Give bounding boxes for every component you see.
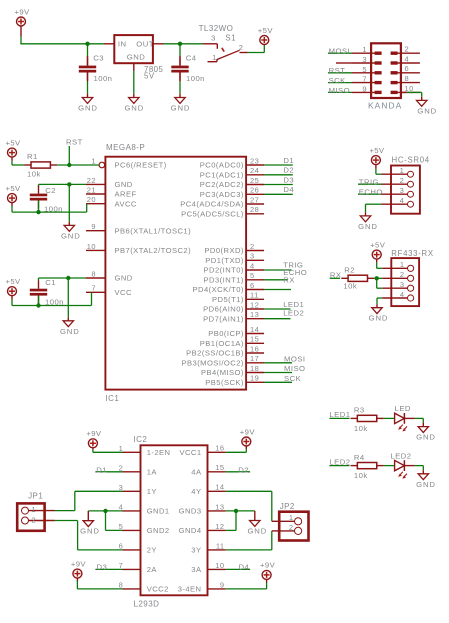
net SCK to KANDA pin7	[328, 82, 352, 84]
net D3 at IC1	[264, 184, 293, 186]
svg-text:AVCC: AVCC	[115, 199, 137, 208]
svg-text:R4: R4	[354, 453, 365, 462]
IC1 right pins	[180, 156, 264, 387]
wire C1 top	[38, 278, 40, 281]
svg-text:RST: RST	[329, 66, 346, 75]
svg-text:15: 15	[215, 463, 224, 472]
svg-text:+9V: +9V	[71, 559, 87, 568]
wire C1 bottom	[38, 296, 40, 306]
svg-text:12: 12	[250, 300, 259, 309]
svg-text:10k: 10k	[354, 471, 368, 480]
wire C3 to GND	[87, 73, 89, 82]
wire +9V to regulator IN	[20, 26, 22, 37]
net D4 to IC2 pin10	[226, 568, 250, 570]
net D1 at IC1	[264, 164, 293, 166]
svg-text:22: 22	[87, 176, 96, 185]
wire +9V to IC2 pin1	[92, 448, 94, 450]
IC2 left pins 1-8	[119, 444, 171, 594]
LED LED2	[390, 451, 411, 478]
KANDA right pins 2 4 6 8 10	[396, 45, 420, 93]
supply +9V P+8	[86, 429, 102, 448]
svg-text:D4: D4	[283, 185, 294, 194]
svg-text:2: 2	[32, 515, 37, 524]
svg-text:100n: 100n	[94, 74, 113, 83]
svg-text:PD4(XCK/T0): PD4(XCK/T0)	[193, 285, 244, 294]
svg-text:GND: GND	[416, 433, 436, 442]
svg-text:LED2: LED2	[329, 457, 350, 466]
capacitor C1	[30, 278, 64, 307]
svg-text:JP2: JP2	[280, 502, 295, 511]
svg-text:GND3: GND3	[179, 507, 202, 516]
wire to RF433 pin3	[376, 278, 378, 288]
svg-text:7: 7	[91, 284, 96, 293]
voltage regulator 7805	[114, 35, 163, 80]
svg-text:3-4EN: 3-4EN	[178, 585, 202, 594]
net LED1 at IC1	[264, 308, 291, 310]
svg-text:GND: GND	[127, 53, 145, 62]
svg-text:PD1(TXD): PD1(TXD)	[205, 256, 244, 265]
svg-text:PD5(T1): PD5(T1)	[212, 295, 244, 304]
svg-text:ECHO: ECHO	[359, 188, 383, 197]
svg-text:SCK: SCK	[284, 374, 302, 383]
svg-text:L293D: L293D	[134, 600, 160, 609]
svg-text:+5V: +5V	[370, 240, 386, 249]
ground GND HC-SR04	[358, 216, 378, 231]
ground GND near C2	[61, 225, 81, 240]
svg-text:KANDA: KANDA	[368, 101, 402, 111]
svg-text:PC1(ADC1): PC1(ADC1)	[200, 171, 244, 180]
connector HC-SR04	[391, 156, 430, 214]
svg-text:GND: GND	[358, 222, 378, 231]
svg-text:4: 4	[250, 261, 255, 270]
svg-text:16: 16	[215, 444, 224, 453]
svg-text:2: 2	[400, 176, 405, 185]
svg-text:5V: 5V	[144, 71, 155, 80]
svg-text:PD7(AIN1): PD7(AIN1)	[203, 314, 244, 323]
svg-text:2: 2	[405, 45, 410, 54]
net MOSI at IC1	[264, 362, 292, 364]
svg-text:1: 1	[400, 166, 405, 175]
connector JP2	[279, 502, 308, 540]
supply +9V P+11	[260, 561, 276, 580]
svg-text:D2: D2	[238, 465, 249, 474]
svg-text:13: 13	[215, 502, 224, 511]
wire RST vertical	[68, 146, 70, 165]
svg-text:2: 2	[239, 43, 244, 52]
svg-text:PB4(MISO): PB4(MISO)	[201, 368, 244, 377]
svg-text:3: 3	[400, 280, 405, 289]
svg-text:D4: D4	[239, 563, 250, 572]
svg-text:GND2: GND2	[147, 526, 170, 535]
microcontroller IC1 MEGA8-P	[105, 143, 246, 403]
svg-text:21: 21	[87, 185, 96, 194]
svg-text:R2: R2	[344, 265, 355, 274]
svg-text:PC3(ADC3): PC3(ADC3)	[200, 190, 244, 199]
wire 7805 GND pin	[133, 63, 135, 71]
svg-text:1: 1	[212, 53, 217, 62]
svg-text:RX: RX	[283, 275, 295, 284]
wire R3 to LED	[384, 417, 395, 419]
svg-text:8: 8	[91, 269, 96, 278]
resistor R4	[351, 453, 384, 480]
svg-text:PC5(ADC5/SCL): PC5(ADC5/SCL)	[181, 210, 244, 219]
svg-text:16: 16	[250, 344, 259, 353]
net SCK at IC1	[264, 381, 292, 383]
ground GND KANDA	[417, 100, 438, 115]
svg-text:GND: GND	[115, 180, 133, 189]
svg-text:LED2: LED2	[390, 451, 411, 460]
svg-text:5: 5	[362, 65, 367, 74]
svg-text:R1: R1	[27, 152, 38, 161]
ground GND JP2 side	[247, 521, 267, 536]
svg-text:GND: GND	[369, 314, 389, 323]
svg-text:VCC1: VCC1	[179, 448, 201, 457]
capacitor C2	[30, 186, 63, 214]
svg-text:11: 11	[216, 541, 225, 550]
svg-text:IC1: IC1	[106, 394, 120, 403]
wire IC2 2Y to JP1 pin2	[55, 520, 78, 522]
svg-text:1: 1	[400, 260, 405, 269]
svg-text:28: 28	[250, 205, 259, 214]
LED LED	[395, 404, 411, 431]
ground GND LED1	[416, 427, 436, 442]
svg-text:VCC2: VCC2	[147, 585, 169, 594]
wire C4 to GND	[179, 73, 181, 82]
wire +5V to AVCC	[11, 203, 13, 207]
wire C2 top	[38, 184, 40, 187]
wire +5V to VCC	[11, 296, 13, 300]
svg-text:14: 14	[215, 483, 224, 492]
ground GND RF433	[369, 308, 389, 323]
wire IC2 GND1 GND2 to GND	[106, 510, 123, 512]
wire KANDA pin10 to GND	[401, 91, 407, 93]
supply +9V P+10	[71, 559, 87, 578]
svg-text:PD0(RXD): PD0(RXD)	[204, 246, 243, 255]
svg-text:MOSI: MOSI	[329, 47, 350, 56]
svg-text:9: 9	[220, 580, 225, 589]
svg-text:14: 14	[250, 325, 259, 334]
svg-text:+9V: +9V	[260, 561, 276, 570]
capacitor C3	[79, 54, 113, 83]
net LED2 to R4	[329, 465, 349, 467]
svg-text:10k: 10k	[343, 281, 357, 290]
svg-text:LED: LED	[395, 404, 411, 413]
svg-text:GND: GND	[171, 104, 191, 113]
junction C2 +5V	[36, 210, 40, 214]
svg-text:15: 15	[250, 335, 259, 344]
svg-text:TRIG: TRIG	[359, 178, 379, 187]
svg-text:+5V: +5V	[5, 138, 21, 147]
junction R2 pins 2-3	[375, 276, 379, 280]
svg-text:GND: GND	[124, 104, 144, 113]
svg-text:PB3(MOSI/OC2): PB3(MOSI/OC2)	[181, 359, 243, 368]
svg-text:+5V: +5V	[5, 277, 21, 286]
svg-text:10: 10	[215, 561, 224, 570]
RF433-RX pins	[382, 260, 413, 301]
svg-text:+9V: +9V	[14, 7, 30, 16]
capacitor C4	[171, 54, 205, 83]
svg-text:OUT: OUT	[136, 40, 154, 49]
net ECHO to HC-SR04 pin3	[358, 193, 382, 195]
net D2 to IC2 pin15	[226, 471, 250, 473]
net RX to R2	[330, 277, 340, 279]
ground GND JP1 side	[80, 521, 100, 536]
svg-text:GND: GND	[115, 274, 133, 283]
svg-text:19: 19	[250, 374, 259, 383]
svg-text:1: 1	[32, 505, 37, 514]
svg-text:VCC: VCC	[115, 288, 132, 297]
svg-text:27: 27	[250, 195, 259, 204]
net LED1 to R3	[329, 417, 349, 419]
net D2 at IC1	[264, 174, 293, 176]
svg-text:4: 4	[405, 54, 410, 63]
supply +5V P+3	[5, 138, 21, 157]
KANDA left pins 1 3 5 7 9	[336, 45, 376, 93]
svg-text:3A: 3A	[191, 565, 202, 574]
svg-text:MISO: MISO	[329, 86, 350, 95]
svg-text:PC0(ADC0): PC0(ADC0)	[200, 161, 244, 170]
net D4 at IC1	[264, 193, 293, 195]
connector JP1	[17, 492, 54, 531]
connector SV1 KANDA	[368, 43, 402, 110]
svg-text:RF433-RX: RF433-RX	[391, 249, 434, 258]
svg-text:23: 23	[250, 156, 259, 165]
wire R1 to IC1 pin1	[57, 164, 99, 166]
wire R4 to LED2	[384, 465, 395, 467]
svg-text:PB7(XTAL2/TOSC2): PB7(XTAL2/TOSC2)	[115, 246, 192, 255]
svg-text:25: 25	[250, 176, 259, 185]
svg-text:+5V: +5V	[258, 26, 274, 35]
net TRIG at IC1	[264, 269, 292, 271]
svg-text:SCK: SCK	[329, 76, 347, 85]
svg-text:PB5(SCK): PB5(SCK)	[205, 378, 244, 387]
svg-text:C1: C1	[45, 278, 56, 287]
net MISO to KANDA pin9	[328, 91, 352, 93]
svg-text:LED2: LED2	[283, 308, 304, 317]
svg-text:+9V: +9V	[86, 429, 102, 438]
net TRIG to HC-SR04 pin2	[358, 183, 382, 185]
wire C2 bottom to +5V net	[38, 201, 40, 213]
svg-text:GND: GND	[78, 104, 98, 113]
net RST to KANDA pin5	[328, 72, 352, 74]
svg-text:2Y: 2Y	[147, 546, 157, 555]
junction GND C1	[66, 276, 70, 280]
wire IC2 4Y to JP2 pin1	[226, 490, 272, 492]
svg-text:2: 2	[289, 523, 294, 532]
wire LED to GND	[404, 417, 414, 419]
svg-text:3: 3	[362, 55, 367, 64]
svg-text:4A: 4A	[191, 468, 202, 477]
svg-text:C2: C2	[45, 186, 56, 195]
wire +5V to R1	[11, 157, 13, 161]
HC-SR04 pins	[382, 166, 414, 207]
svg-text:IC2: IC2	[134, 435, 148, 444]
svg-text:1: 1	[289, 513, 294, 522]
wire C4 branch	[179, 44, 181, 57]
svg-text:D2: D2	[283, 166, 294, 175]
svg-text:D1: D1	[283, 156, 294, 165]
net ECHO at IC1	[264, 279, 288, 281]
IC1 left pins	[86, 156, 191, 297]
svg-text:26: 26	[250, 186, 259, 195]
svg-text:GND1: GND1	[147, 507, 170, 516]
resistor R3	[351, 406, 384, 433]
svg-text:9: 9	[362, 84, 367, 93]
svg-text:GND: GND	[247, 527, 267, 536]
svg-text:C4: C4	[186, 54, 197, 63]
svg-text:18: 18	[250, 364, 259, 373]
svg-text:RST: RST	[66, 137, 83, 146]
wire IC2 GND3 GND4 to GND	[226, 510, 255, 512]
svg-text:10: 10	[405, 84, 414, 93]
wire GND vertical to GND symbol	[68, 184, 70, 221]
ground GND near C1	[60, 321, 80, 336]
svg-text:+5V: +5V	[5, 184, 21, 193]
resistor R1	[24, 152, 57, 178]
svg-text:1Y: 1Y	[147, 487, 157, 496]
svg-text:+5V: +5V	[369, 146, 385, 155]
ground GND LED2	[416, 474, 436, 489]
supply +5V P+4	[5, 184, 21, 203]
svg-text:PD2(INT0): PD2(INT0)	[204, 266, 244, 275]
motor driver IC2 L293D	[134, 435, 208, 609]
svg-text:JP1: JP1	[28, 492, 43, 501]
wire IC2 1Y to JP1 pin1	[75, 490, 123, 492]
net D1 to IC2 pin2	[95, 471, 122, 473]
wire IC1 GND pin22 to C2	[39, 183, 87, 185]
resistor R2	[341, 265, 374, 290]
svg-text:1A: 1A	[147, 468, 158, 477]
svg-text:4: 4	[400, 196, 405, 205]
svg-text:2: 2	[400, 270, 405, 279]
svg-text:2A: 2A	[147, 565, 158, 574]
svg-text:100n: 100n	[186, 74, 205, 83]
svg-text:1: 1	[91, 156, 96, 165]
net MISO at IC1	[264, 372, 292, 374]
svg-text:17: 17	[250, 354, 259, 363]
ground GND C3	[78, 98, 98, 113]
svg-text:S1: S1	[225, 33, 236, 42]
wire C3 to net	[87, 44, 89, 57]
wire 7805 OUT to switch	[153, 43, 164, 45]
svg-text:2: 2	[250, 242, 255, 251]
svg-text:MISO: MISO	[284, 364, 305, 373]
supply +5V P+2	[258, 26, 274, 45]
svg-text:5: 5	[250, 271, 255, 280]
svg-text:24: 24	[250, 166, 259, 175]
svg-text:13: 13	[250, 310, 259, 319]
svg-text:11: 11	[250, 291, 259, 300]
wire RF433 pin4 to GND	[377, 297, 382, 299]
wire IC2 3Y to JP2 pin2	[226, 549, 272, 551]
svg-text:GND: GND	[61, 231, 81, 240]
svg-text:10: 10	[87, 242, 96, 251]
svg-text:1: 1	[362, 45, 367, 54]
junction node C4 top	[178, 42, 182, 46]
junction RST R1	[67, 163, 71, 167]
svg-text:1-2EN: 1-2EN	[147, 448, 171, 457]
svg-text:AREF: AREF	[115, 190, 137, 199]
wire GND vertical below C1	[67, 278, 69, 317]
svg-text:4Y: 4Y	[191, 487, 201, 496]
svg-text:20: 20	[87, 195, 96, 204]
svg-text:PB0(ICP): PB0(ICP)	[208, 329, 244, 338]
net LED2 at IC1	[264, 318, 291, 320]
wire switch pin2 to +5V	[248, 52, 265, 54]
junction GND net	[67, 182, 71, 186]
svg-text:C3: C3	[93, 54, 104, 63]
svg-text:9: 9	[91, 222, 96, 231]
svg-text:PC2(ADC2): PC2(ADC2)	[200, 180, 244, 189]
wire +5V to HC-SR04 pin1	[375, 165, 377, 169]
svg-text:10k: 10k	[27, 169, 41, 178]
svg-text:LED1: LED1	[329, 410, 350, 419]
svg-text:GND: GND	[80, 527, 100, 536]
ground GND 7805	[124, 98, 144, 113]
junction node C3 top	[85, 42, 89, 46]
svg-text:8: 8	[405, 74, 410, 83]
svg-text:PB1(OC1A): PB1(OC1A)	[200, 339, 244, 348]
svg-text:D3: D3	[283, 175, 294, 184]
svg-text:PD3(INT1): PD3(INT1)	[204, 276, 244, 285]
wire IC1 GND pin8 to C1	[39, 277, 87, 279]
wire +9V to IC2 3-4EN	[266, 579, 268, 582]
wire HC-SR04 pin4 to GND	[366, 203, 382, 205]
svg-text:10k: 10k	[354, 424, 368, 433]
svg-text:PB6(XTAL1/TOSC1): PB6(XTAL1/TOSC1)	[115, 226, 192, 235]
svg-text:GND: GND	[417, 106, 437, 115]
supply +9V P+9	[240, 427, 256, 446]
svg-text:PC6(/RESET): PC6(/RESET)	[115, 161, 167, 170]
svg-text:6: 6	[405, 64, 410, 73]
svg-text:+9V: +9V	[240, 427, 256, 436]
ground GND C4	[171, 98, 191, 113]
wire +9V to IC2 pin16	[245, 446, 247, 449]
svg-text:12: 12	[215, 522, 224, 531]
svg-text:IN: IN	[118, 40, 127, 49]
svg-text:RX: RX	[330, 270, 342, 279]
supply +5V P+7	[370, 240, 386, 259]
svg-text:PD6(AIN0): PD6(AIN0)	[203, 305, 244, 314]
svg-text:3: 3	[211, 33, 216, 42]
svg-text:4: 4	[400, 290, 405, 299]
net D3 to IC2 pin7	[95, 568, 122, 570]
connector RF433-RX	[391, 249, 434, 306]
svg-text:D1: D1	[96, 465, 107, 474]
wire +5V to RF433 pin1	[376, 259, 378, 263]
supply +5V P+5	[5, 277, 21, 296]
svg-text:HC-SR04: HC-SR04	[392, 156, 430, 165]
svg-text:7: 7	[362, 75, 367, 84]
svg-text:PB2(SS/OC1B): PB2(SS/OC1B)	[186, 349, 244, 358]
supply +5V P+6	[369, 146, 385, 165]
svg-text:TL32WO: TL32WO	[199, 24, 234, 33]
svg-text:3: 3	[250, 252, 255, 261]
svg-text:R3: R3	[354, 406, 365, 415]
net MOSI to KANDA pin1	[328, 52, 352, 54]
wire LED2 to GND	[404, 465, 414, 467]
switch S1 TL32WO	[199, 24, 248, 62]
wire +9V to IC2 VCC2	[76, 578, 78, 582]
svg-text:GND: GND	[416, 480, 436, 489]
svg-text:MOSI: MOSI	[284, 354, 305, 363]
wire R2 to RF433 pin2	[374, 277, 382, 279]
svg-text:6: 6	[250, 281, 255, 290]
IC2 right pins 16-9	[178, 444, 226, 594]
svg-text:3Y: 3Y	[191, 546, 201, 555]
junction C1 +5V	[36, 303, 40, 307]
svg-text:GND: GND	[60, 327, 80, 336]
